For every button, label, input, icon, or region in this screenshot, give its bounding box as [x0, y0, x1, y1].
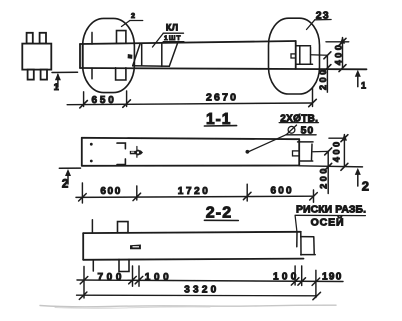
svg-text:1ШТ: 1ШТ — [164, 35, 182, 42]
svg-text:400: 400 — [332, 139, 342, 162]
svg-text:600: 600 — [271, 186, 294, 197]
svg-text:2: 2 — [362, 178, 369, 193]
svg-text:600: 600 — [100, 186, 122, 197]
svg-text:200: 200 — [319, 166, 329, 189]
svg-text:ОСЕЙ: ОСЕЙ — [311, 216, 345, 229]
svg-text:700: 700 — [98, 272, 126, 283]
svg-text:1: 1 — [54, 82, 59, 92]
svg-text:1: 1 — [361, 81, 366, 91]
svg-text:190: 190 — [322, 272, 343, 283]
svg-text:РИСКИ РАЗБ.: РИСКИ РАЗБ. — [296, 205, 366, 216]
svg-text:200: 200 — [318, 67, 328, 90]
svg-text:КЛ: КЛ — [166, 23, 179, 33]
svg-text:3320: 3320 — [184, 285, 219, 296]
svg-text:1720: 1720 — [178, 186, 211, 197]
svg-text:2: 2 — [62, 178, 68, 190]
svg-text:100: 100 — [273, 271, 300, 282]
svg-text:2: 2 — [131, 11, 136, 20]
svg-text:400: 400 — [333, 42, 343, 65]
svg-text:650: 650 — [92, 95, 117, 106]
svg-text:2670: 2670 — [206, 92, 238, 104]
svg-text:2-2: 2-2 — [206, 205, 232, 222]
svg-text:100: 100 — [145, 272, 173, 283]
